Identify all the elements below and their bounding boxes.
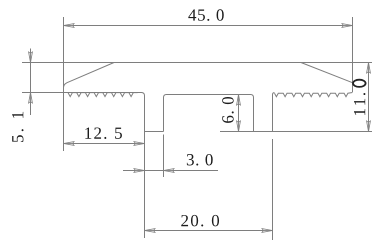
dimension 20.0 line xyxy=(145,230,273,232)
wire bottom extension line through right leg bottom xyxy=(220,131,372,133)
arrow 11.0 top xyxy=(367,63,371,73)
wire left chamfer xyxy=(64,63,115,88)
dimension 12.5 line xyxy=(64,143,145,145)
wire left leg bottom xyxy=(145,131,164,133)
dimension 5.1 line xyxy=(30,49,32,116)
arrow 45.0 left xyxy=(64,24,74,28)
arrow 5.1 bottom outside xyxy=(29,93,33,103)
dimension 11.0 line xyxy=(368,63,370,132)
arrow 45.0 right xyxy=(342,24,352,28)
label 11. rotated (digits and period) xyxy=(354,93,365,115)
arrow 3.0 right outside xyxy=(164,169,174,173)
arrow 5.1 top outside xyxy=(29,52,33,62)
label 3.0 xyxy=(187,154,213,166)
wire right edge / extension line x=352 xyxy=(352,17,354,92)
arrow 20.0 right xyxy=(262,229,272,233)
arrow 20.0 left xyxy=(145,229,155,233)
wire slot ceiling with left leg right wall and right leg left wall xyxy=(164,95,254,132)
wire right pad serration zigzag xyxy=(275,93,353,97)
wire top surface line with extensions xyxy=(22,62,372,64)
label 6.0 rotated xyxy=(222,97,234,123)
arrow 3.0 left outside xyxy=(134,169,144,173)
label 12.5 xyxy=(85,127,122,139)
wire right leg right wall xyxy=(273,93,275,132)
arrow 6.0 top xyxy=(237,95,241,105)
wire left edge / extension line x=63 xyxy=(63,17,65,151)
arrow 12.5 right xyxy=(134,142,144,146)
label 20.0 xyxy=(181,215,219,227)
arrow 11.0 bottom xyxy=(367,121,371,131)
wire left leg right wall lower extension xyxy=(163,135,165,178)
label 5.1 rotated xyxy=(12,112,23,142)
wire right chamfer xyxy=(301,63,353,83)
arrow 12.5 left xyxy=(64,142,74,146)
label 45.0 xyxy=(188,9,223,21)
dimension 45.0 line xyxy=(64,25,353,27)
wire left pad serration line joining left leg left wall xyxy=(22,93,145,239)
label 0 of 11.0 drawn as bold ellipse xyxy=(353,80,366,87)
dimension 6.0 line xyxy=(238,95,240,132)
wire left pad serration teeth xyxy=(68,93,138,97)
dimension 3.0 line xyxy=(123,170,218,172)
wire right leg right wall lower extension xyxy=(272,139,274,240)
arrow 6.0 bottom xyxy=(237,121,241,131)
